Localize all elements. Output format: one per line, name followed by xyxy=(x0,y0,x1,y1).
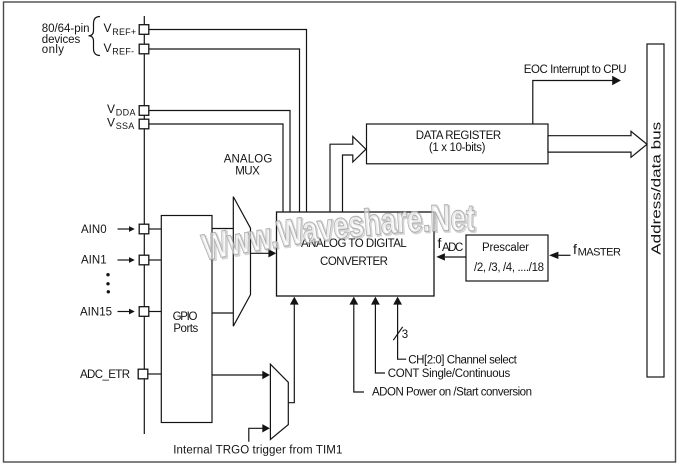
svg-text:Prescaler: Prescaler xyxy=(482,242,529,254)
svg-text:V: V xyxy=(107,102,115,116)
wire VSSA xyxy=(149,124,283,212)
arrowhead at ADC right xyxy=(436,253,445,260)
EOC wire xyxy=(533,81,613,125)
svg-text:V: V xyxy=(104,41,112,55)
arrowhead trigger mux input 2 xyxy=(262,424,270,432)
address/data bus box xyxy=(647,44,664,377)
svg-text:MASTER: MASTER xyxy=(578,246,621,258)
analog mux trapezoid xyxy=(233,197,250,327)
svg-text:(1 x 10-bits): (1 x 10-bits) xyxy=(429,142,486,154)
control ADON wire xyxy=(354,304,364,393)
svg-text:V: V xyxy=(107,115,115,129)
prescaler box xyxy=(466,235,548,281)
wire GPIO to analog mux (top) xyxy=(212,228,233,230)
wire GPIO to analog mux (bottom) xyxy=(212,312,233,314)
svg-text:f: f xyxy=(573,241,577,257)
control CH wire xyxy=(398,304,407,360)
arrow AIN0 xyxy=(118,226,135,232)
svg-text:GPIO: GPIO xyxy=(173,311,198,323)
CONT arrowhead xyxy=(371,297,380,305)
svg-text:REF-: REF- xyxy=(112,46,134,56)
arrowhead into ADC bottom xyxy=(290,297,299,305)
svg-text:CONVERTER: CONVERTER xyxy=(320,256,388,268)
arrowhead trigger mux input 1 xyxy=(262,371,270,379)
arrowhead into ADC left xyxy=(268,249,276,257)
arrowhead at prescaler right xyxy=(549,252,558,259)
wire prescaler to ADC xyxy=(445,256,466,258)
DATA REGISTER box xyxy=(367,124,549,164)
wire VREF- xyxy=(149,49,300,212)
svg-text:CH[2:0] Channel select: CH[2:0] Channel select xyxy=(408,354,517,366)
svg-text:CONT Single/Continuous: CONT Single/Continuous xyxy=(388,368,511,380)
svg-text:Internal TRGO trigger from TIM: Internal TRGO trigger from TIM1 xyxy=(173,445,342,457)
pin VSSA xyxy=(139,119,149,129)
svg-text:only: only xyxy=(42,44,64,56)
ADC converter box xyxy=(277,212,435,296)
svg-text:SSA: SSA xyxy=(116,121,135,131)
label VSSA xyxy=(107,115,134,131)
ellipsis dots xyxy=(106,273,110,293)
TRGO wire xyxy=(249,428,263,442)
wire ADC_ETR xyxy=(148,373,162,375)
svg-text:AIN0: AIN0 xyxy=(81,224,107,236)
prescaler label xyxy=(474,242,544,274)
block arrow DATA REGISTER to bus xyxy=(548,131,647,157)
pin AIN1 xyxy=(139,255,149,265)
GPIO Ports label xyxy=(173,311,199,335)
wire VREF+ xyxy=(149,30,307,213)
ADC label xyxy=(301,238,407,268)
note 80/64-pin devices only xyxy=(42,23,90,56)
label ANALOG MUX xyxy=(224,153,273,177)
wire analog mux to ADC xyxy=(251,252,269,254)
arrow AIN1 xyxy=(118,257,135,263)
GPIO Ports box xyxy=(161,216,212,423)
pin VREF+ xyxy=(139,25,149,35)
hollow arrow ADC to DATA REGISTER xyxy=(330,136,366,212)
svg-text:Address/data bus: Address/data bus xyxy=(650,122,664,255)
wire AIN1 xyxy=(149,259,162,261)
label VREF+ xyxy=(104,21,137,37)
arrow AIN15 xyxy=(118,309,135,315)
svg-text:/2, /3, /4, ..../18: /2, /3, /4, ..../18 xyxy=(474,262,544,274)
control CONT wire xyxy=(375,304,385,374)
wire GPIO to trigger mux xyxy=(212,374,263,376)
pin AIN0 xyxy=(139,224,149,234)
svg-text:DDA: DDA xyxy=(116,108,136,118)
svg-text:ANALOG: ANALOG xyxy=(224,153,273,165)
label fADC xyxy=(438,235,464,254)
pin AIN15 xyxy=(139,307,149,317)
svg-text:V: V xyxy=(104,21,112,35)
label VDDA xyxy=(107,102,136,118)
pin VDDA xyxy=(139,106,149,116)
svg-text:EOC Interrupt to CPU: EOC Interrupt to CPU xyxy=(524,64,627,76)
label fMASTER xyxy=(573,241,621,258)
svg-text:MUX: MUX xyxy=(235,165,260,177)
svg-text:AIN15: AIN15 xyxy=(80,307,112,319)
wire AIN0 xyxy=(149,228,162,230)
svg-text:DATA REGISTER: DATA REGISTER xyxy=(416,130,501,142)
pin header vertical line xyxy=(143,16,145,434)
wire fMASTER to prescaler xyxy=(558,254,570,256)
svg-text:Ports: Ports xyxy=(173,323,198,335)
CH arrowhead xyxy=(393,297,402,305)
DATA REGISTER label xyxy=(416,130,501,154)
svg-text:ADC_ETR: ADC_ETR xyxy=(80,369,130,381)
pin VREF- xyxy=(139,44,149,54)
trigger mux trapezoid xyxy=(270,364,288,439)
svg-text:AIN1: AIN1 xyxy=(81,255,107,267)
svg-text:REF+: REF+ xyxy=(112,27,136,37)
ADON arrowhead xyxy=(349,297,358,305)
wire AIN15 xyxy=(149,311,162,313)
svg-text:3: 3 xyxy=(402,329,408,341)
pin ADC_ETR xyxy=(138,369,148,379)
EOC arrowhead xyxy=(612,76,621,86)
svg-text:ADON Power on /Start conversio: ADON Power on /Start conversion xyxy=(372,386,532,398)
trigger mux output wire xyxy=(288,304,294,403)
wire VDDA xyxy=(149,111,290,213)
brace xyxy=(89,17,101,56)
svg-text:ADC: ADC xyxy=(442,242,463,254)
bus width slash xyxy=(393,327,402,340)
label VREF- xyxy=(104,41,135,57)
